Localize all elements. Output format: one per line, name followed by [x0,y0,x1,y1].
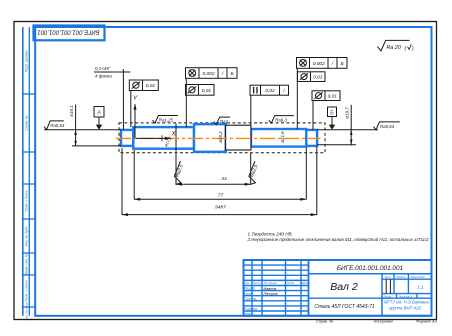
svg-text:Петров: Петров [264,292,278,296]
svg-text:0,002: 0,002 [202,71,214,77]
roughness Ra1 above seg3 [214,117,230,125]
svg-text:Ra6,3: Ra6,3 [275,118,287,123]
svg-text:Утв.: Утв. [244,312,251,316]
roughness Ra0.63 right [374,122,400,130]
svg-text:Лит.: Лит. [384,275,392,279]
shaft segment 3 (large) [194,124,226,152]
frame F4 group right: runout 0.002 / Б [297,58,348,69]
shaft segment 2 [133,127,194,149]
roughness Ra1.25 above seg2 [153,116,178,124]
svg-text:Н.контр.: Н.контр. [244,307,258,311]
left dia dimension [44,129,121,131]
svg-text:Б: Б [330,110,334,116]
svg-text:ø16,1: ø16,1 [69,105,74,117]
svg-text:Взам. инв. №: Взам. инв. № [25,253,29,274]
frame F6 cylindricity 0.01 [312,91,340,101]
dimension 77 [134,198,306,200]
svg-text:Формат А3: Формат А3 [416,320,438,324]
svg-text:0,02: 0,02 [265,88,275,94]
frame F3 parallelism 0.02 / [250,85,289,95]
frame F1 group left: runout 0.002 / Б [186,68,238,79]
svg-text:0,01: 0,01 [202,88,212,94]
leader F6 [312,101,314,130]
svg-text:Т.контр.: Т.контр. [244,297,257,301]
svg-text:БИГЕ.001.001.001.001: БИГЕ.001.001.001.001 [337,265,404,272]
black collar rectangle [226,125,251,150]
svg-text:Вал 2: Вал 2 [330,281,358,293]
svg-text:ø21,6: ø21,6 [280,131,285,143]
svg-text:33: 33 [221,176,227,182]
dimension 33 [176,183,251,185]
svg-text:№ докум.: № докум. [264,281,277,285]
svg-text:Ra1,25: Ra1,25 [159,118,174,123]
right dia dimension [317,129,378,131]
svg-text:Подп. и дата: Подп. и дата [25,280,29,301]
svg-text:БИГЕ.001.001.001.001: БИГЕ.001.001.001.001 [37,29,99,35]
chamfer callout 0,1x45 [94,71,130,73]
svg-text:Лист: Лист [383,294,392,298]
leader F1/F2 [185,78,187,127]
svg-text:Изм.: Изм. [244,281,251,285]
svg-text:94h7: 94h7 [215,205,226,211]
svg-text:1.Твердость 240 НВ.: 1.Твердость 240 НВ. [248,232,293,237]
svg-text:Подп. и дата: Подп. и дата [25,190,29,211]
dimension 94h7 [122,214,317,216]
svg-text:Б: Б [340,61,343,67]
svg-text:МГТУ им. Н.Э.Баумана: МГТУ им. Н.Э.Баумана [384,300,429,305]
svg-text:группа ВМТ-42Б: группа ВМТ-42Б [389,306,421,311]
svg-text:Масса: Масса [397,275,406,279]
shaft left stub [121,130,133,146]
svg-text:4 фаски: 4 фаски [95,74,112,79]
svg-text:Инв. № дубл.: Инв. № дубл. [25,226,29,247]
svg-text:Б: Б [230,71,233,77]
svg-text:Подп.: Подп. [287,281,295,285]
svg-text:Иванов: Иванов [264,287,277,291]
shaft segment 4 [251,129,306,147]
svg-text:Масштаб: Масштаб [411,275,425,279]
datum A [94,107,104,118]
dashed blank outline box [119,123,325,153]
svg-text:Разраб.: Разраб. [244,287,256,291]
shaft right stub [306,130,317,146]
svg-text:Листов 1: Листов 1 [398,294,413,298]
svg-text:Справ. №: Справ. № [316,320,333,324]
svg-text:Ra0,63: Ra0,63 [50,123,65,128]
roughness Ra0.63 left [44,121,64,130]
svg-text:Пров.: Пров. [244,292,253,296]
svg-text:77: 77 [218,193,224,199]
svg-text:ø19,7: ø19,7 [344,107,349,119]
svg-text:1:1: 1:1 [417,285,424,290]
svg-text:Копировал: Копировал [374,320,394,324]
svg-text:0,01: 0,01 [328,94,338,100]
strip dividers [23,93,35,95]
svg-text:ø25,2: ø25,2 [218,131,223,143]
centerline [116,137,321,139]
coordinate axis Y [134,104,136,138]
datum Б [328,107,337,117]
svg-text:2.Неуказанные предельные откло: 2.Неуказанные предельные отклонения вало… [247,237,430,242]
svg-text:): ) [411,46,414,52]
rotated roughness on 33 left [172,161,189,186]
svg-text:Инв. № подл.: Инв. № подл. [25,302,29,321]
svg-text:Дата: Дата [301,281,310,285]
svg-text:А: А [96,111,101,117]
svg-text:Ra1: Ra1 [220,119,229,124]
frame F5 cylindricity 0.01 [298,72,326,82]
bottom dimension extension lines [121,148,123,215]
svg-text:Перв. примен.: Перв. примен. [25,50,29,73]
internal step line [175,124,177,152]
frame F0 cylindricity left [129,80,158,91]
rotated roughness on 33 right [246,161,263,186]
svg-text:Лист: Лист [252,281,261,285]
svg-text:X: X [171,131,177,138]
svg-text:0,01: 0,01 [313,75,323,81]
svg-text:0,1×45°: 0,1×45° [95,66,111,71]
svg-text:Сталь 45Л ГОСТ 4543-71: Сталь 45Л ГОСТ 4543-71 [314,304,375,310]
left column strip lines [22,27,24,316]
top-left stamp box with rotated designation [34,26,105,41]
svg-text:0,002: 0,002 [313,61,325,67]
roughness Ra6.3 above seg4 [269,116,294,124]
leader F4/F5 [296,68,298,129]
leader F3 [250,95,252,125]
svg-text:Ra 20: Ra 20 [387,45,401,51]
corner roughness Ra 20 [378,40,410,51]
inner blue frame [35,27,431,316]
svg-text:Справ. №: Справ. № [25,115,29,131]
coordinate axis X [136,137,171,139]
svg-text:Ra0,63: Ra0,63 [380,124,395,129]
frame F2 cylindricity 0.01 [186,85,215,96]
Lit sub-cells [385,279,387,293]
svg-text:0,01: 0,01 [146,83,156,89]
